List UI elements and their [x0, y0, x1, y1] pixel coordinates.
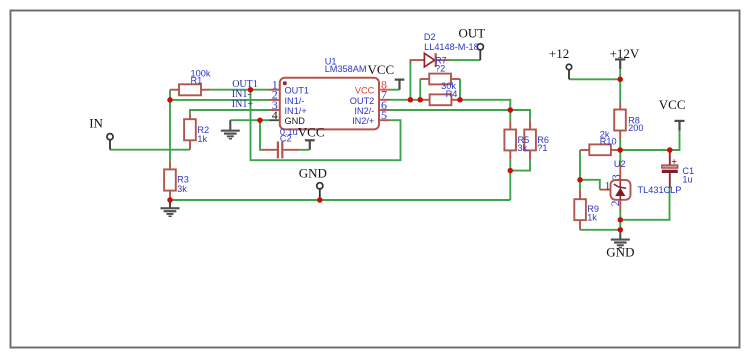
svg-text:3: 3 [611, 174, 623, 180]
svg-text:2: 2 [610, 200, 622, 206]
svg-text:+12V: +12V [610, 46, 640, 61]
svg-text:IN1/-: IN1/- [285, 96, 305, 106]
svg-text:VCC: VCC [298, 124, 325, 139]
svg-text:5: 5 [381, 108, 387, 122]
svg-text:LM358AM: LM358AM [325, 64, 367, 74]
svg-text:OUT2: OUT2 [350, 96, 375, 106]
svg-text:1u: 1u [682, 174, 692, 184]
svg-text:VCC: VCC [659, 97, 686, 112]
svg-text:?1: ?1 [537, 143, 547, 153]
svg-text:IN2/+: IN2/+ [352, 116, 374, 126]
svg-text:IN1/+: IN1/+ [285, 106, 307, 116]
svg-text:IN1+: IN1+ [232, 99, 254, 110]
svg-text:1: 1 [605, 180, 611, 192]
svg-text:U2: U2 [614, 159, 626, 169]
svg-text:OUT1: OUT1 [285, 86, 310, 96]
svg-text:GND: GND [606, 245, 634, 260]
svg-text:OUT: OUT [459, 26, 486, 41]
svg-text:R1: R1 [191, 75, 203, 85]
svg-text:+12: +12 [549, 46, 569, 61]
svg-text:D2: D2 [424, 32, 436, 42]
svg-text:VCC: VCC [368, 62, 395, 77]
svg-text:LL4148-M-18: LL4148-M-18 [424, 42, 479, 52]
svg-text:1k: 1k [587, 212, 597, 222]
svg-text:3k: 3k [518, 143, 528, 153]
svg-text:?2: ?2 [435, 63, 445, 73]
svg-text:TL431CLP: TL431CLP [638, 185, 682, 195]
svg-text:R10: R10 [600, 137, 617, 147]
svg-text:3k: 3k [177, 184, 187, 194]
svg-text:200: 200 [628, 123, 643, 133]
svg-text:4: 4 [272, 108, 278, 122]
svg-text:GND: GND [299, 166, 327, 181]
svg-text:VCC: VCC [355, 86, 375, 96]
svg-text:GND: GND [285, 116, 306, 126]
svg-text:C2: C2 [280, 133, 292, 143]
svg-text:R4: R4 [446, 89, 458, 99]
svg-text:IN2/-: IN2/- [354, 106, 374, 116]
svg-text:+: + [672, 156, 677, 166]
svg-text:IN: IN [89, 116, 103, 131]
svg-text:1k: 1k [197, 134, 207, 144]
